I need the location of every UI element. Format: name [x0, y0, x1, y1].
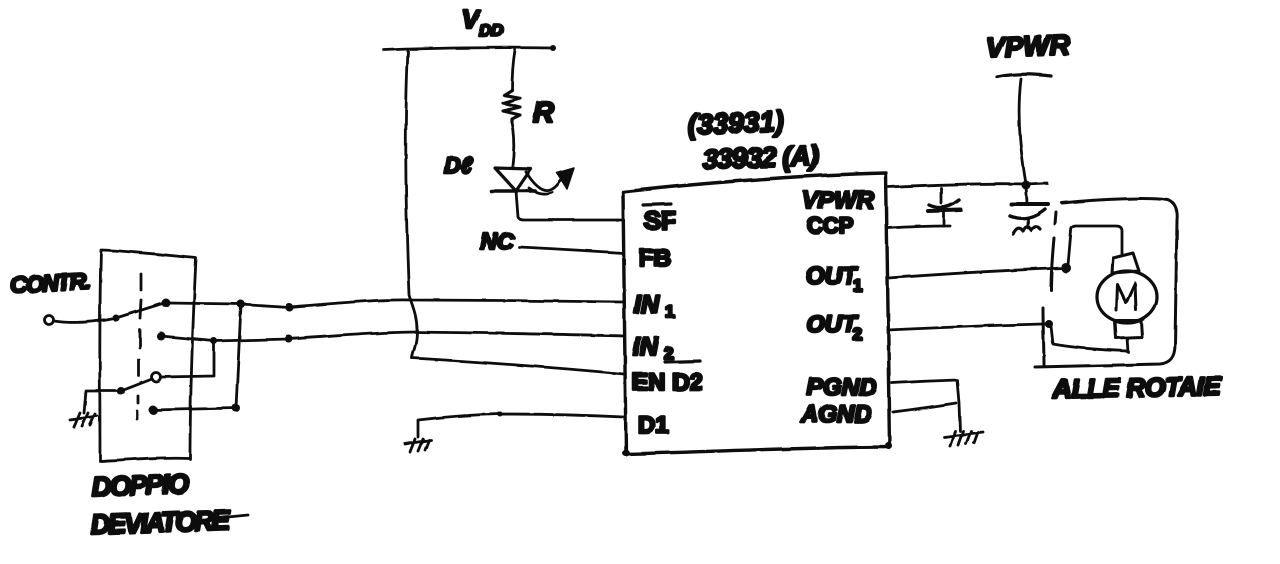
pin label IN1: [634, 291, 674, 321]
wire input to pivot: [54, 318, 114, 322]
wire NC to FB pin: [519, 247, 623, 253]
capacitor C2 VPWR: [1010, 186, 1048, 228]
wire OUT1 pin to motor: [888, 268, 1064, 278]
svg-text:PGND: PGND: [807, 374, 876, 401]
svg-text:NC: NC: [480, 228, 514, 254]
node junction dot: [237, 300, 245, 308]
node S1a throw B dot: [157, 332, 166, 341]
svg-text:2: 2: [853, 325, 862, 344]
svg-text:1: 1: [665, 302, 674, 321]
node junction dot: [211, 338, 218, 345]
node IC corner blob left: [623, 450, 630, 457]
svg-text:IN: IN: [634, 291, 660, 319]
pin label EN D2 with overline: [632, 361, 703, 396]
wire resistor to LED: [512, 122, 514, 166]
node junction dot: [285, 335, 293, 343]
wire VPWR supply down: [1019, 79, 1026, 184]
wire VDD left branch down to EN/D2: [406, 51, 417, 358]
svg-text:DOPPIO: DOPPIO: [91, 469, 190, 502]
wire OUT2 pin to motor: [888, 324, 1046, 330]
label DEVIATORE: [90, 505, 248, 540]
ground switch: [70, 413, 97, 427]
node VPWR supply bar: [997, 74, 1051, 77]
svg-text:Dℓ: Dℓ: [444, 152, 473, 178]
node junction dot: [285, 303, 293, 311]
pin label OUT2: [806, 311, 862, 344]
motor M1 bottom terminal: [1115, 321, 1142, 338]
node small dot: [498, 412, 503, 417]
svg-text:33932 (A): 33932 (A): [702, 140, 819, 175]
wire throw B to IN2: [161, 332, 624, 341]
motor M1 body: [1097, 271, 1157, 323]
svg-text:2: 2: [664, 344, 673, 363]
wire VDD rail: [384, 48, 553, 50]
wire S1b pivot to ground: [84, 391, 121, 413]
pin label SF with overline: [643, 204, 676, 235]
node VPWR junction dot: [1022, 181, 1031, 190]
node OUT1 junction dot: [1061, 263, 1071, 273]
wire motor bottom stub: [1127, 338, 1128, 352]
node IC corner blob right: [886, 443, 893, 450]
svg-text:SF: SF: [644, 207, 676, 235]
wire AGND pin: [893, 403, 956, 412]
node S1a throw A dot: [162, 299, 171, 308]
svg-text:R: R: [533, 97, 554, 129]
svg-text:VPWR: VPWR: [802, 187, 875, 214]
LED light arrows: [526, 172, 562, 190]
wire VPWR pin to rail: [888, 183, 1047, 187]
svg-text:ALLE ROTAIE: ALLE ROTAIE: [1052, 371, 1223, 404]
node S1a pivot dot: [113, 315, 120, 322]
node S1b throw B dot: [149, 406, 158, 415]
svg-text:D1: D1: [638, 412, 669, 439]
capacitor C1 CCP: [928, 188, 961, 226]
motor enclosure box: [1035, 199, 1177, 367]
motor M1 letter M: [1116, 283, 1136, 310]
wire throw A to IN1: [166, 300, 624, 307]
wire OUT2 to motor minus: [1051, 326, 1127, 351]
svg-text:CONTR.: CONTR.: [10, 268, 91, 298]
svg-text:AGND: AGND: [800, 401, 872, 428]
switch S1a input terminal: [45, 316, 54, 325]
svg-text:(33931): (33931): [687, 106, 785, 140]
resistor R: [503, 90, 520, 122]
svg-text:FB: FB: [639, 245, 671, 272]
svg-text:VPWR: VPWR: [985, 29, 1071, 63]
node VDD label: [462, 6, 504, 40]
node S1b pivot dot: [117, 387, 125, 395]
wire PGND pin: [892, 380, 960, 431]
switch dashed divider: [137, 274, 141, 419]
motor M1 top terminal: [1112, 253, 1139, 273]
wire VDD to resistor: [512, 50, 515, 90]
switch box outline: [100, 250, 196, 461]
svg-text:OUT: OUT: [806, 263, 859, 290]
wire cross link upper: [161, 341, 214, 377]
switch S1a lever: [116, 303, 164, 318]
switch S1b lever: [121, 379, 152, 391]
svg-text:DD: DD: [479, 21, 504, 40]
ground C2: [1013, 226, 1040, 234]
svg-text:IN: IN: [633, 333, 659, 361]
svg-text:EN D2: EN D2: [632, 369, 703, 396]
svg-text:1: 1: [853, 276, 862, 295]
wire cross link lower: [153, 305, 241, 410]
node junction dot: [232, 404, 240, 412]
ground D1: [405, 439, 431, 452]
svg-text:CCP: CCP: [807, 213, 853, 238]
IC U1 33932 outline: [623, 173, 890, 454]
svg-text:DEVIATORE: DEVIATORE: [90, 505, 231, 540]
pin label OUT1: [806, 263, 862, 295]
ground PGND AGND: [944, 431, 983, 446]
wire CCP pin: [888, 226, 950, 228]
LED DL triangle: [495, 168, 531, 191]
LED cathode bar: [491, 189, 535, 193]
motor box left edge segments: [1043, 212, 1056, 365]
wire EN D2 input: [412, 358, 624, 374]
pin label IN2: [633, 333, 673, 363]
node VDD rail end dot: [550, 45, 556, 51]
wire LED to SF pin: [516, 191, 623, 220]
svg-text:OUT: OUT: [806, 311, 859, 338]
node OUT2 junction dot: [1045, 320, 1053, 328]
wire motor plus loop: [1068, 226, 1122, 265]
switch S1b throw A terminal: [152, 373, 161, 382]
wire D1 ground to D1 pin: [418, 414, 624, 437]
